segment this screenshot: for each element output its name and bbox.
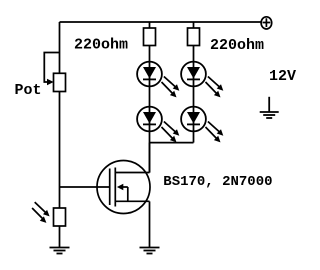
- wire pot wiper loop: [44, 53, 59, 83]
- wire LED branches bottom rail: [150, 142, 194, 144]
- ground left (under LDR): [50, 248, 70, 254]
- ground middle (under MOSFET source): [140, 248, 160, 254]
- wire gate lead: [60, 186, 110, 188]
- wire left vertical (top rail to pot): [59, 22, 61, 73]
- LED D4: [181, 107, 223, 143]
- wire left vertical (pot to LDR, through gate node): [59, 92, 61, 209]
- resistor R1 220ohm: [144, 28, 156, 46]
- LED D1: [137, 62, 179, 98]
- svg-text:Pot: Pot: [15, 82, 42, 99]
- svg-text:12V: 12V: [269, 68, 296, 85]
- svg-text:220ohm: 220ohm: [210, 37, 264, 54]
- wire LDR to ground: [59, 226, 61, 248]
- svg-text:BS170, 2N7000: BS170, 2N7000: [163, 174, 272, 190]
- ground right (12V reference): [260, 97, 279, 118]
- svg-text:220ohm: 220ohm: [74, 37, 128, 54]
- battery + terminal: [261, 17, 272, 29]
- resistor R2 220ohm: [188, 28, 200, 46]
- LED D2: [137, 107, 179, 143]
- potentiometer Pot: [47, 73, 66, 91]
- LED D3: [181, 62, 223, 98]
- wire left LED branch vertical: [149, 22, 151, 173]
- wire source to ground: [149, 201, 151, 247]
- wire top rail: [60, 21, 261, 23]
- transistor Q1 MOSFET: [97, 143, 150, 214]
- photoresistor LDR: [32, 202, 65, 226]
- wire right LED branch vertical: [193, 22, 195, 143]
